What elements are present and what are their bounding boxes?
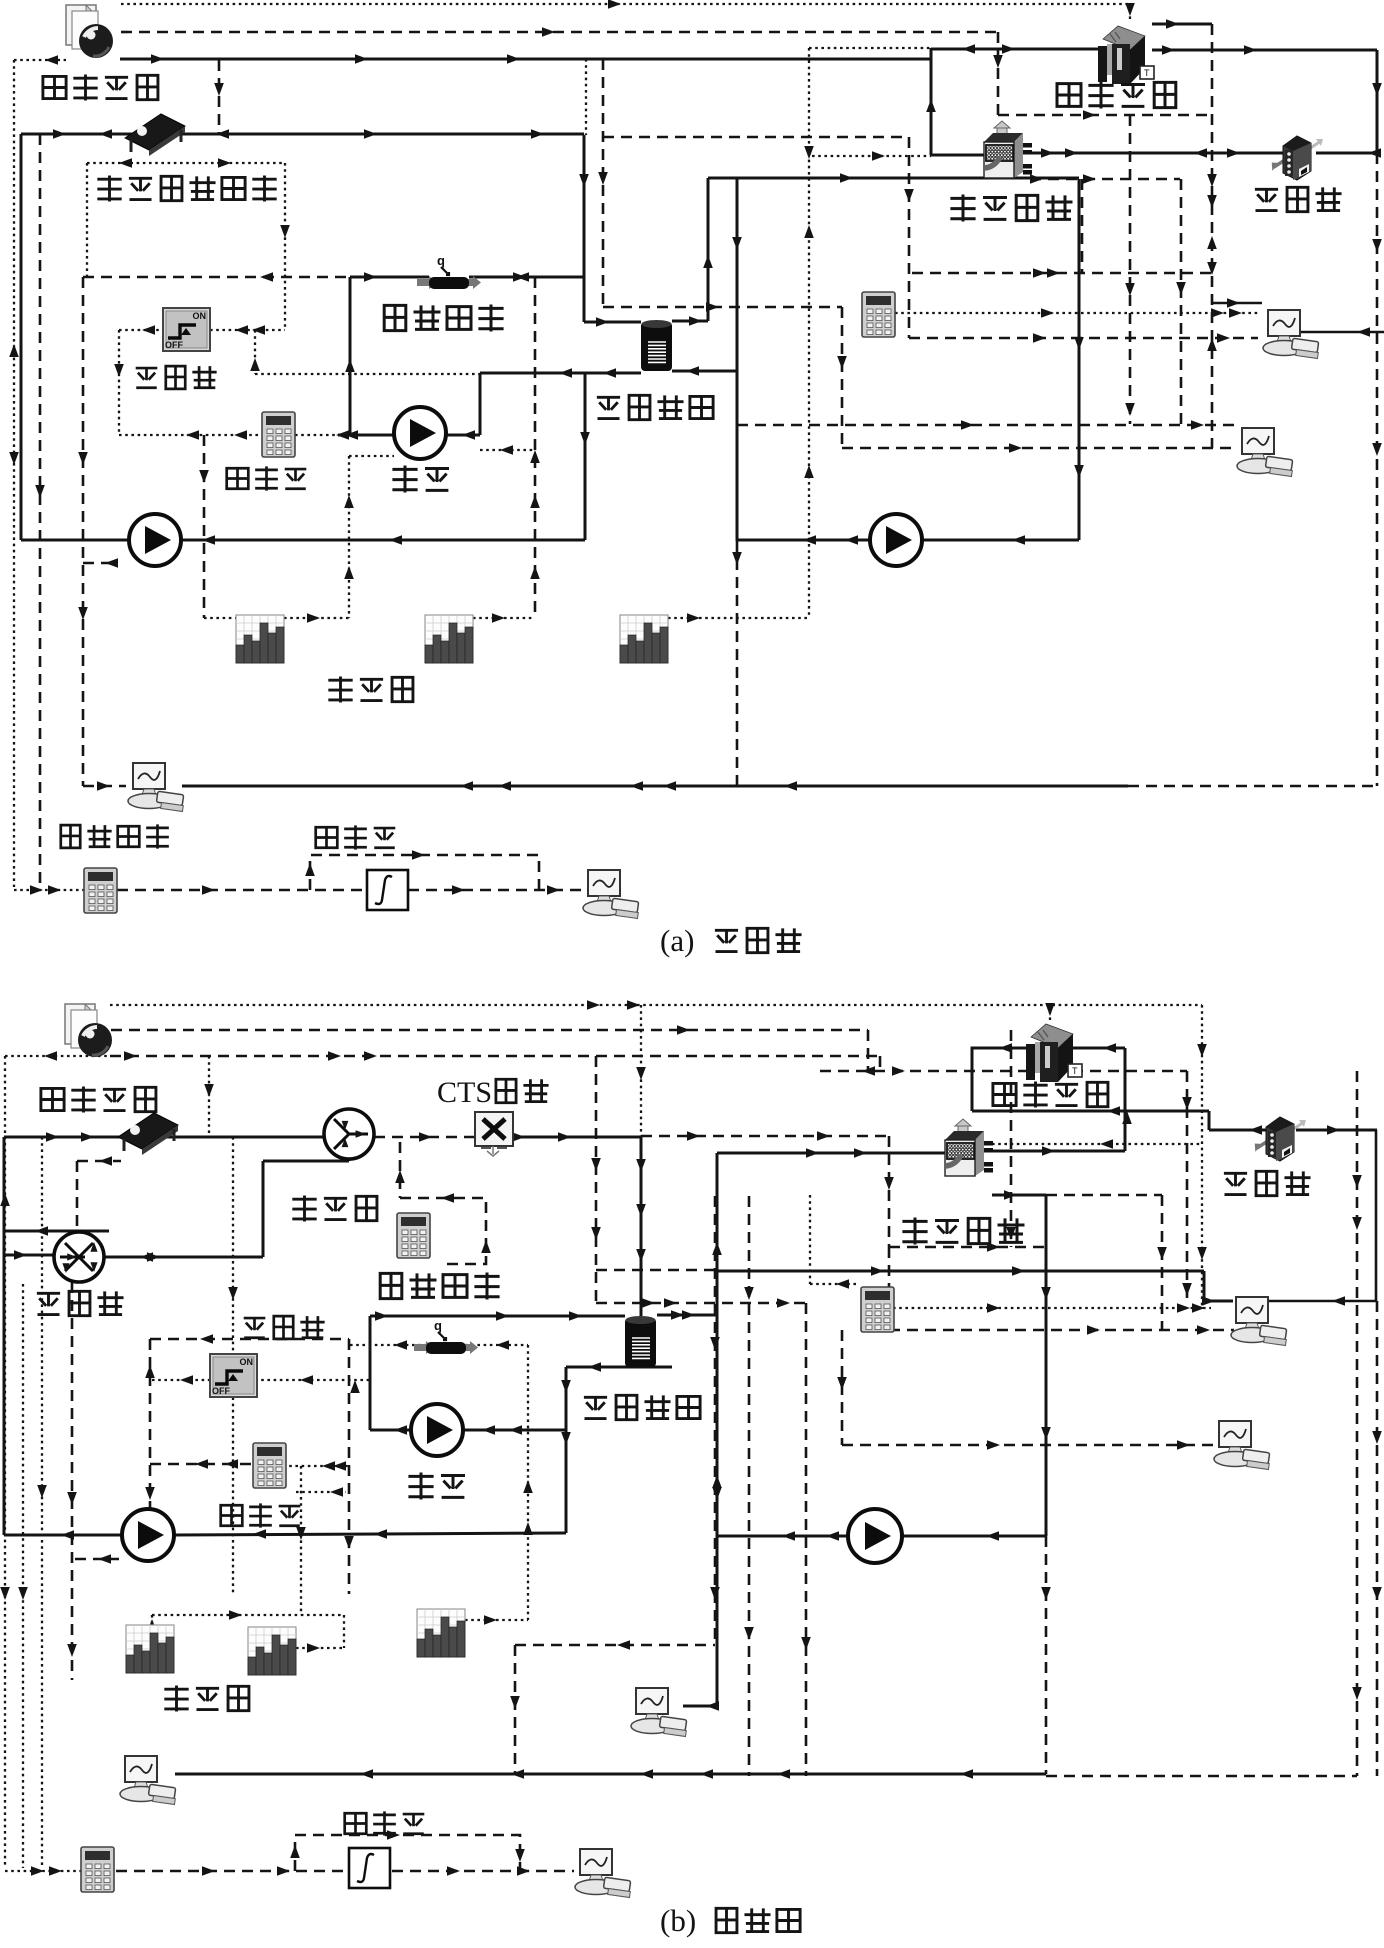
wire dashed col349 B: [348, 1339, 351, 1594]
wire riser to dry zone A: [930, 48, 933, 155]
wire hp B in: [717, 1152, 945, 1155]
wire dashed branch338 A: [909, 337, 1258, 340]
heat pump icon B: [944, 1119, 993, 1176]
label 太阳能集热器 A: [97, 175, 121, 201]
label 积分器 B: [345, 1813, 367, 1834]
schedule icon B1: [126, 1625, 174, 1673]
solar collector icon B: [118, 1113, 178, 1155]
label 天气文件 B: [41, 1088, 64, 1110]
wire dashed to comp2 A: [842, 447, 1234, 450]
controller icon A: [163, 308, 210, 351]
wire dashed integrator out A: [408, 889, 582, 892]
wire dotted weather drop B: [208, 1056, 210, 1137]
wire dotted col42 B: [41, 1137, 43, 1868]
wire comp1 stub A: [1213, 302, 1262, 305]
computer icon B plotter: [120, 1756, 176, 1805]
wire dotted calc B below: [296, 1491, 346, 1493]
svg-text:q: q: [437, 253, 445, 268]
wire dashed hp B bottom ext: [1046, 1194, 1162, 1197]
wire dotted weather B left: [5, 1055, 110, 1057]
wire dashed col1187 B: [1186, 1071, 1189, 1301]
wire left loop A down: [20, 134, 23, 540]
wire dotted sched B1 riser: [151, 1615, 153, 1627]
wire dashed integrator in B: [116, 1870, 349, 1873]
wire dashed calc B left: [150, 1463, 256, 1466]
integrator icon B: [349, 1848, 390, 1888]
wire plotter B return: [175, 1773, 1046, 1776]
label 除湿器 A: [1255, 189, 1278, 210]
wire dashed second header B: [110, 1055, 880, 1058]
calculator icon A: [262, 412, 295, 457]
wire dryzone B top in: [972, 1047, 1026, 1050]
wire dotted col301 B: [300, 1466, 302, 1615]
computer icon B4: [575, 1849, 631, 1898]
wire dotted heater line B: [350, 1344, 426, 1346]
schedule icon A3: [620, 615, 668, 663]
wire dotted schedule3 A link: [668, 617, 809, 619]
dry zone icon B: [1026, 1024, 1082, 1082]
wire dashed col842 B: [841, 1330, 844, 1445]
wire solid link B: [717, 1270, 1204, 1273]
wire dashed hp underbox top A: [1030, 178, 1180, 181]
label 积分器 A: [316, 827, 338, 848]
wire dotted left column A: [13, 60, 15, 887]
wire dashed integrator in A: [117, 889, 367, 892]
label 时间表 B: [164, 1685, 188, 1711]
wire dashed header jog B: [820, 1070, 1187, 1073]
schedule icon B2: [248, 1627, 296, 1675]
wire tank A right top port: [672, 320, 708, 323]
wire loop A right-right leg: [1078, 179, 1081, 540]
wire dotted calc2 B out: [893, 1307, 1211, 1309]
schedule icon A2: [425, 615, 473, 663]
label 时间表 A: [328, 676, 352, 702]
label 缓冲水箱 B: [584, 1397, 607, 1418]
controller icon B: [210, 1354, 257, 1397]
wire divY to CTS B: [374, 1136, 475, 1139]
wire dashed mid drop B: [714, 1196, 717, 1645]
label 水泵 A: [392, 466, 417, 493]
wire tank A drop: [583, 135, 586, 322]
wire dotted sched B3 link: [465, 1619, 528, 1621]
wire dashed col909 A: [908, 137, 911, 338]
wire into heat pump A left: [931, 154, 984, 157]
wire heat pump A to dehumidifier: [1030, 152, 1283, 155]
pump icon A3: [870, 514, 922, 566]
pump icon A2: [129, 514, 181, 566]
label 水源热泵 A: [950, 195, 975, 222]
wire dashed drop A right: [997, 32, 1000, 115]
wire hp B right link: [992, 1150, 1125, 1153]
wire dotted to plot calc A: [14, 889, 84, 891]
wire dehum B right: [1296, 1129, 1377, 1132]
wire dotted controller B right: [255, 1379, 370, 1381]
wire pump B3 line: [717, 1535, 848, 1538]
wire dashed jog1645 B: [515, 1644, 715, 1647]
heat pump icon A: [983, 121, 1032, 178]
wire dashed bottom right A: [1128, 785, 1377, 788]
wire dotted controller A right: [210, 329, 285, 331]
pump icon B2: [411, 1404, 463, 1456]
wire dashed col1046 B: [1045, 1536, 1048, 1774]
wire tank A down leg: [584, 373, 587, 540]
wire dotted weather A left: [14, 59, 66, 61]
wire dry zone A top-right: [1152, 23, 1212, 26]
dehumidifier icon A: [1270, 136, 1323, 180]
wire dashed comp B1 in: [889, 1329, 1234, 1332]
wire dashed col1011 B: [1010, 1030, 1013, 1247]
wire heater loop left B: [369, 1316, 372, 1430]
label 缓冲水箱 A: [597, 397, 620, 418]
wire dotted hp B right: [992, 1143, 1202, 1145]
svg-text:T: T: [1144, 68, 1150, 78]
wire dashed tank link B: [596, 1302, 810, 1305]
wire dotted calc2 A out: [895, 312, 1258, 314]
schedule icon B3: [417, 1609, 465, 1657]
wire dashed col737 low A: [736, 541, 739, 786]
wire to dry zone A left: [931, 48, 1098, 51]
label 控制器 B: [244, 1318, 266, 1338]
wire loop A right-left leg: [736, 178, 739, 541]
wire left edge B: [3, 1137, 6, 1535]
wire weather A out: [120, 58, 931, 61]
wire tank A bottom-right: [672, 370, 737, 373]
wire dotted collector box left A: [86, 163, 88, 277]
calculator icon B: [253, 1443, 286, 1488]
wire dotted col23 B: [22, 1284, 24, 1868]
wire dotted schedule1 A link: [284, 617, 349, 619]
wire dashed right edge col A: [1376, 153, 1379, 786]
wire dashed controller header A: [83, 276, 350, 279]
weather file icon B: [65, 1004, 112, 1057]
label 分水器 B: [37, 1293, 60, 1314]
wire dotted hp box left A: [808, 48, 810, 618]
wire dashed col596 B: [595, 1056, 598, 1303]
label 干燥区域 A: [1057, 84, 1081, 107]
wire heat pump A bottom header: [708, 177, 1079, 180]
wire dashed pump B tap: [75, 1558, 119, 1561]
wire plotter A return: [182, 785, 1128, 788]
wire dotted schedule1 A riser: [348, 456, 350, 618]
wire dashed jog307 A: [603, 306, 842, 309]
label 控制器 A: [136, 368, 158, 388]
wire heater loop top B: [370, 1315, 625, 1318]
wire comp B3 in: [683, 1705, 717, 1708]
label 计算器 B: [221, 1505, 243, 1526]
svg-text:OFF: OFF: [165, 340, 183, 350]
wire dashed hp box B: [641, 1135, 889, 1138]
wire dotted to tank line A: [255, 373, 480, 375]
wire collector B main: [4, 1136, 324, 1139]
wire comp B1 right: [1262, 1300, 1376, 1303]
wire dashed to x1212 A: [998, 114, 1212, 117]
wire dashed integ bypass B: [295, 1835, 520, 1871]
dehumidifier icon B: [1253, 1117, 1306, 1161]
calculator icon B3: [81, 1847, 114, 1892]
wire dotted controller B left: [152, 1379, 210, 1381]
wire heater A line: [350, 276, 429, 279]
solar collector icon A: [125, 114, 185, 156]
pump icon A1: [394, 407, 446, 459]
computer icon B3: [631, 1688, 687, 1737]
CTS data icon B: [475, 1112, 513, 1156]
wire pump A3 line: [737, 539, 870, 542]
wire tank A bottom-left: [480, 372, 641, 375]
wire dotted pump link A: [480, 449, 535, 451]
wire dashed schedule drop A: [203, 435, 206, 618]
wire dotted controller A in: [119, 329, 163, 331]
wire dotted controller A drop: [118, 330, 120, 435]
wire dotted hp box mid A: [812, 155, 931, 157]
calculator icon B aux: [397, 1213, 430, 1258]
computer icon B2: [1214, 1421, 1270, 1470]
wire pump A2 line: [21, 539, 129, 542]
aux heater icon A: [417, 253, 481, 289]
wire pump A1 right drop: [479, 373, 482, 435]
wire dashed branch273 A: [912, 272, 1213, 275]
weather file icon A: [66, 5, 113, 58]
calculator icon A3: [84, 868, 117, 913]
wire hp B riser: [716, 1153, 719, 1706]
label 水源热泵 B: [902, 1218, 927, 1245]
label 计算器 A: [227, 468, 249, 489]
wire tank B down leg: [565, 1367, 568, 1533]
wire dashed col 1212 A: [1211, 24, 1214, 448]
schedule icon A1: [236, 615, 284, 663]
wire dotted top B: [110, 1004, 1202, 1006]
wire pump B2 line: [370, 1429, 412, 1432]
wire dotted calculator A in: [119, 434, 262, 436]
wire dashed left branch A: [82, 277, 85, 786]
wire dotted calc B links: [283, 1465, 349, 1467]
wire dryzone B box: [972, 1048, 1125, 1111]
wire dashed integrator out B: [392, 1870, 574, 1873]
pump icon B3: [848, 1509, 902, 1563]
svg-text:T: T: [1072, 1066, 1078, 1076]
wire right loop B leg: [1045, 1196, 1048, 1536]
wire dashed comp B2 in: [842, 1444, 1217, 1447]
wire dashed jog1268 B: [596, 1269, 717, 1272]
label 集水器 B: [292, 1195, 316, 1221]
computer icon A1: [1263, 310, 1319, 359]
svg-text:(a): (a): [660, 923, 694, 958]
wire dashed bottom right B: [1046, 1775, 1357, 1778]
computer icon A3: [128, 763, 184, 812]
wire dotted collector box top A: [87, 162, 285, 164]
wire dashed weather B out: [111, 1029, 868, 1032]
wire dashed left column A2: [39, 134, 42, 887]
wire pump A1 line: [338, 434, 394, 437]
wire collector A main: [21, 133, 584, 136]
wire dotted left col B: [4, 1056, 6, 1868]
wire dry zone A right: [1152, 49, 1377, 52]
wire dashed col1130 A: [1129, 115, 1132, 424]
wire dotted top A: [121, 3, 1130, 5]
wire divX to col B: [104, 1256, 263, 1259]
wire dehum B line: [1208, 1111, 1211, 1130]
label 天气文件 A: [43, 76, 66, 98]
wire dehumidifier A right: [1316, 152, 1377, 155]
label 辅助供热 B: [380, 1273, 402, 1298]
wire dotted col641 B: [640, 1005, 642, 1136]
wire dashed hp underbox side A: [1081, 179, 1084, 273]
calculator icon B2: [861, 1287, 894, 1332]
svg-text:OFF: OFF: [212, 1386, 230, 1396]
dry zone icon A: [1098, 26, 1154, 84]
svg-text:(b): (b): [660, 1903, 696, 1938]
svg-text:ON: ON: [240, 1357, 254, 1367]
computer icon A4: [583, 870, 639, 919]
wire dashed col75 B: [71, 1282, 74, 1680]
label 除湿器 B: [1224, 1173, 1247, 1194]
wire dashed integ bypass A: [310, 855, 539, 890]
label 辅助供热 A: [384, 305, 406, 330]
wire right edge down A: [1376, 50, 1379, 153]
wire tank B bottom: [566, 1366, 672, 1369]
wire pump B1 line: [4, 1534, 122, 1537]
wire dotted hp box top A: [809, 47, 931, 49]
wire heater A left riser: [349, 277, 352, 435]
integrator icon A: [367, 870, 408, 910]
wire dashed col842 A: [841, 307, 844, 448]
wire dotted col810 B: [809, 1195, 811, 1284]
wire dashed CTS box B: [400, 1198, 486, 1264]
wire dotted col233 B: [232, 1137, 234, 1594]
wire dotted schedule2 A link: [473, 617, 535, 619]
aux heater icon B: [414, 1318, 478, 1354]
wire tank B riser: [640, 1137, 643, 1317]
wire divX top line B: [4, 1230, 109, 1233]
wire divX in B: [4, 1254, 54, 1257]
wire dashed col806 B: [805, 1303, 808, 1776]
calculator icon A2: [862, 292, 895, 337]
svg-text:ON: ON: [193, 311, 207, 321]
splitter icon 分水器 B: [54, 1232, 104, 1282]
wire dashed pump2 tap A: [83, 562, 114, 565]
wire hp B bottom: [992, 1194, 1046, 1197]
wire dotted col1202 B: [1201, 1005, 1203, 1308]
label 数据绘图 A: [61, 825, 80, 848]
svg-text:q: q: [434, 1318, 442, 1333]
wire dotted col528 B: [527, 1345, 529, 1620]
wire dashed weather A out: [121, 31, 998, 34]
wire dashed collector drop A: [218, 60, 221, 134]
computer icon B1: [1231, 1297, 1287, 1346]
svg-text:CTS: CTS: [437, 1076, 492, 1109]
wire dashed schedule2 A riser: [534, 277, 537, 618]
wire dashed divX link B: [77, 1160, 121, 1163]
wire dotted heater drop A: [585, 59, 587, 135]
label 干燥区域 B: [993, 1083, 1016, 1105]
label 水泵 B: [408, 1473, 433, 1500]
buffer tank icon B: [625, 1316, 656, 1367]
wire dashed col749 B: [748, 1196, 751, 1776]
wire dashed col1162 B: [1161, 1195, 1164, 1330]
wire dashed col1178 A: [1180, 179, 1183, 424]
wire dashed right edge B: [1376, 1301, 1379, 1776]
wire dotted sched B2 link: [296, 1647, 344, 1649]
wire dashed mid header A: [603, 136, 909, 139]
wire tank B right port: [657, 1314, 717, 1317]
wire dashed hp B out: [889, 1246, 1046, 1249]
wire dotted calc B3 in: [5, 1870, 81, 1872]
wire dashed controller box B: [150, 1338, 349, 1341]
wire tank A top port: [584, 321, 641, 324]
computer icon A2: [1237, 428, 1293, 477]
wire divY down B: [348, 1159, 351, 1161]
wire tank A right riser: [707, 178, 710, 321]
wire dotted collector box right A: [284, 163, 286, 330]
wire dashed to comp2b A: [737, 424, 1234, 427]
wire dashed col515 B: [514, 1645, 517, 1774]
wire dashed col603 A: [602, 59, 605, 307]
pump icon B1: [122, 1509, 174, 1561]
buffer tank icon A: [641, 320, 672, 371]
wire CTS to tank riser B: [513, 1136, 641, 1139]
divider icon 集水器 B: [324, 1109, 374, 1159]
wire dashed col1357 B: [1356, 1071, 1359, 1776]
wire dotted calculator A out: [295, 434, 340, 436]
wire comp1 right A: [1289, 331, 1384, 334]
wire dotted controller link A: [254, 330, 256, 374]
